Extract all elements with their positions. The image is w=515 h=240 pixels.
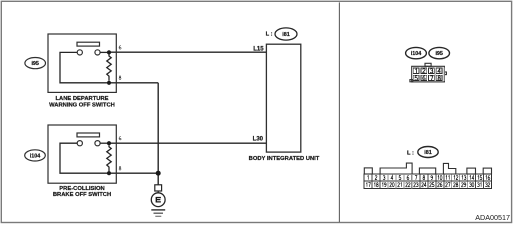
svg-text:PRE-COLLISION: PRE-COLLISION	[59, 186, 104, 192]
svg-text:WARNING OFF SWITCH: WARNING OFF SWITCH	[49, 103, 115, 109]
svg-text:L30: L30	[253, 136, 264, 142]
svg-text:i81: i81	[424, 150, 432, 156]
svg-text:i104: i104	[30, 154, 41, 160]
svg-text:BODY INTEGRATED UNIT: BODY INTEGRATED UNIT	[249, 156, 320, 162]
svg-text:i104: i104	[411, 51, 422, 57]
svg-text:i81: i81	[282, 32, 290, 38]
svg-text:L :: L :	[266, 32, 273, 38]
svg-text:L15: L15	[253, 46, 264, 52]
svg-text:i95: i95	[31, 61, 39, 67]
svg-text:L :: L :	[407, 150, 414, 156]
svg-text:LANE DEPARTURE: LANE DEPARTURE	[55, 96, 108, 102]
svg-text:i95: i95	[435, 51, 443, 57]
svg-text:ADA00517: ADA00517	[475, 213, 510, 222]
svg-text:BRAKE OFF SWITCH: BRAKE OFF SWITCH	[53, 192, 111, 198]
